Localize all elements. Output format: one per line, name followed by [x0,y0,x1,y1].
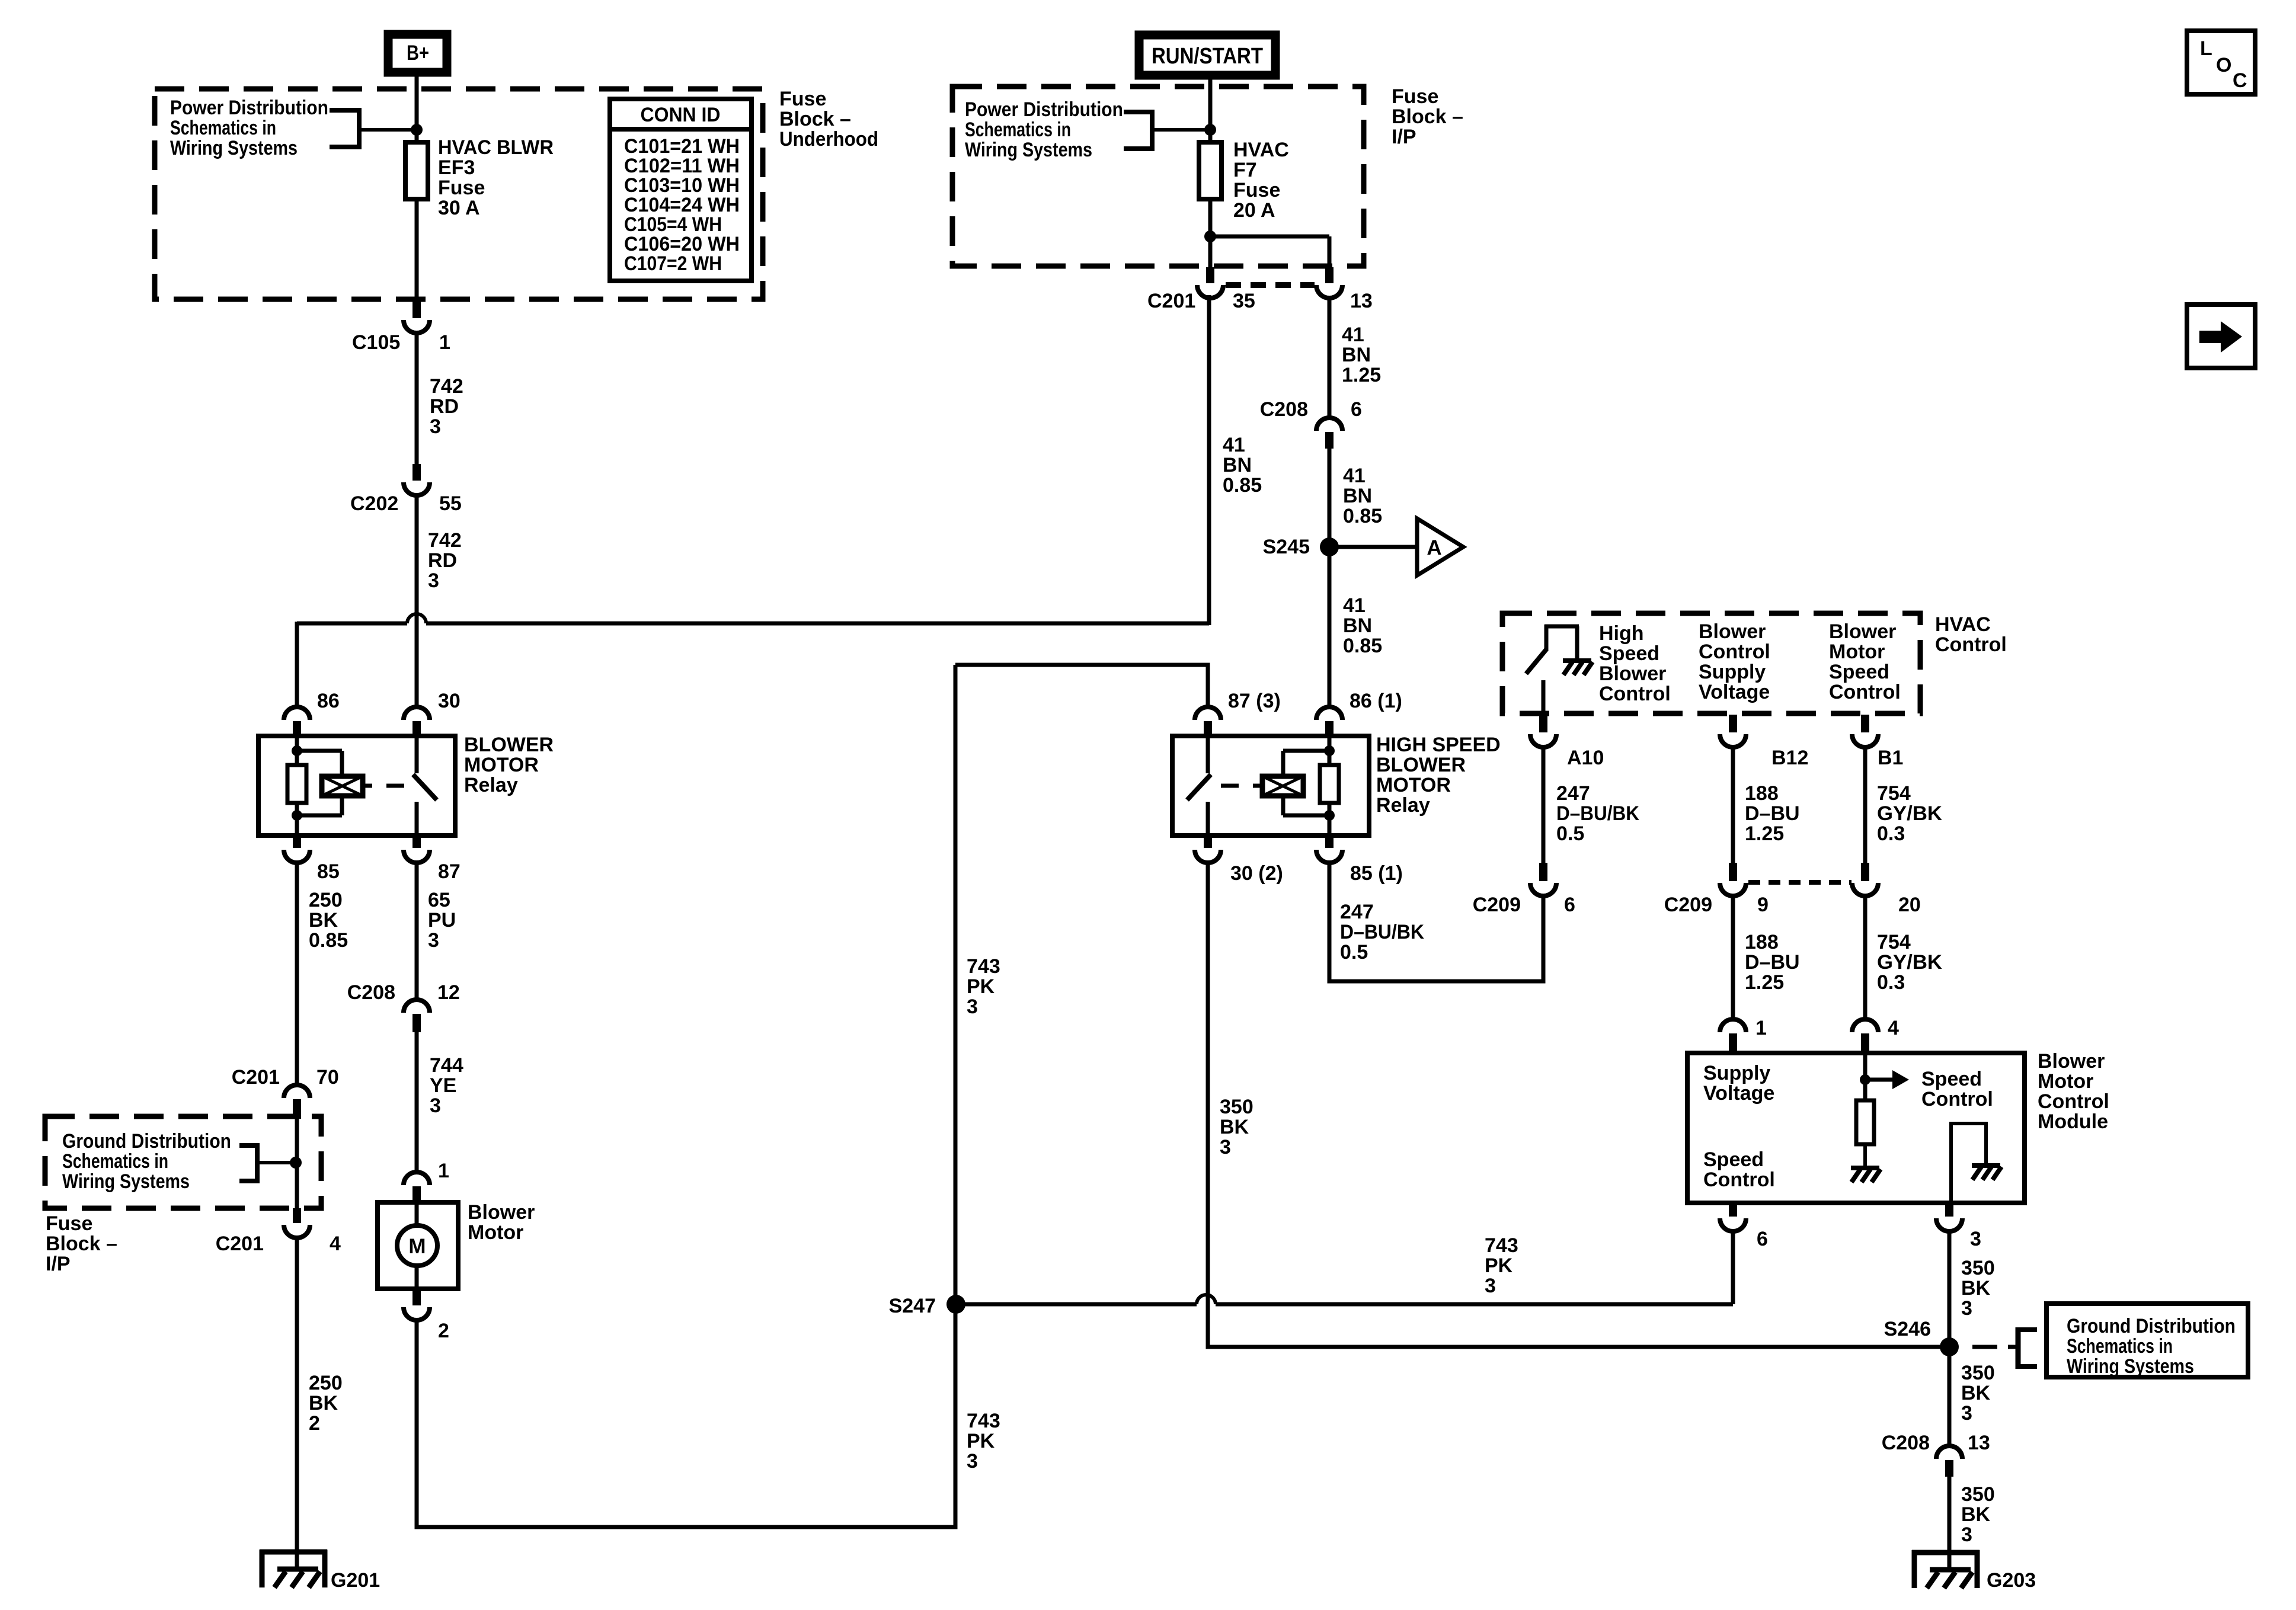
svg-text:RD: RD [428,549,457,572]
svg-text:6: 6 [1757,1228,1768,1250]
svg-text:GY/BK: GY/BK [1877,951,1942,974]
svg-text:Motor: Motor [1829,641,1885,663]
wire B+ to fuse EF3 [415,72,419,145]
svg-text:BK: BK [1220,1116,1249,1138]
label fuse block I/P bottom left [46,1212,117,1275]
svg-text:1: 1 [438,1160,449,1182]
module pin 6 [1720,1201,1746,1231]
wire S245 to arrow A [1329,545,1417,549]
svg-text:GY/BK: GY/BK [1877,802,1942,825]
ground G201 [260,1550,327,1587]
blower motor M [397,1202,437,1289]
svg-text:Schematics in: Schematics in [170,117,276,139]
svg-text:85: 85 [317,860,340,883]
wire RUN/START to fuse F7 [1208,75,1213,145]
svg-text:Ground Distribution: Ground Distribution [2067,1315,2236,1337]
svg-text:D–BU: D–BU [1745,802,1800,825]
HVAC pin B12 [1720,715,1746,747]
relay blower motor box [258,736,455,836]
label fuse EF3 [438,136,554,219]
bracket power distribution right [1124,110,1210,151]
svg-text:B1: B1 [1878,747,1903,769]
wire 754 GY/BK C209-20 to module pin 4 [1863,894,1868,1022]
svg-text:RUN/START: RUN/START [1152,44,1263,69]
label wire 350 BK 3 left [1220,1096,1253,1158]
svg-text:I/P: I/P [46,1253,71,1275]
wire 744 YE to blower motor [415,1031,419,1174]
svg-text:Relay: Relay [464,774,518,796]
label wire 188 D-BU 1.25 upper [1745,782,1800,845]
relay2 resistor [1320,765,1339,803]
label pin 86(1) [1350,690,1402,712]
label pin 30 [438,690,461,712]
svg-text:3: 3 [428,929,439,952]
connector C201 joint dashed [1226,282,1315,288]
fuse F7 [1199,142,1221,199]
svg-text:6: 6 [1351,398,1362,421]
module pin 4 [1852,1019,1878,1055]
svg-text:Block –: Block – [779,108,851,130]
svg-text:D–BU/BK: D–BU/BK [1340,921,1424,943]
relay pin 87 [404,833,430,863]
svg-text:EF3: EF3 [438,156,475,179]
label module pin 1 [1755,1017,1767,1039]
svg-text:0.3: 0.3 [1877,971,1905,994]
connector C209 pin 6 [1530,863,1556,896]
wire 754 GY/BK B1 to C209-20 [1863,746,1868,863]
connector C105 pin 1 [404,300,430,333]
label speed control internal [1921,1068,1993,1110]
svg-text:Wiring Systems: Wiring Systems [2067,1355,2194,1378]
wire 743 PK S247 up to 87(3) [954,665,958,1304]
svg-text:247: 247 [1556,782,1590,805]
svg-text:C208: C208 [347,981,395,1004]
svg-text:20 A: 20 A [1233,199,1275,222]
fuse block underhood dashed box [155,89,763,299]
note power distribution left [170,97,328,159]
label wire 41 BN 0.85 lower [1343,594,1382,657]
label B12 [1771,747,1808,769]
svg-text:12: 12 [437,981,460,1004]
relay high speed box [1172,736,1369,836]
label high speed relay [1376,734,1501,817]
svg-text:55: 55 [439,492,462,515]
svg-text:BLOWER: BLOWER [1376,754,1466,776]
label wire 247 D-BU/BK 0.5 left [1340,901,1424,964]
svg-text:743: 743 [1485,1234,1518,1257]
HVAC pin A10 [1530,715,1556,747]
svg-text:BN: BN [1343,614,1372,637]
svg-text:M: M [408,1235,426,1258]
svg-text:BK: BK [309,1392,338,1414]
svg-text:4: 4 [1888,1017,1899,1039]
label C105 [352,331,450,354]
svg-text:13: 13 [1350,290,1373,312]
note ground distribution left [62,1130,231,1193]
wire C201-13 to C208-6 [1328,297,1332,420]
S246 dashed link [1972,1345,1997,1349]
svg-text:Wiring Systems: Wiring Systems [170,137,298,159]
note power distribution right [965,98,1123,161]
power feed flag RUN/START [1139,35,1275,75]
svg-text:Blower: Blower [1699,620,1766,643]
module internal resistor [1856,1100,1874,1166]
svg-text:86: 86 [317,690,340,712]
svg-text:0.5: 0.5 [1556,822,1584,845]
svg-text:Module: Module [2038,1110,2108,1133]
svg-text:HIGH SPEED: HIGH SPEED [1376,734,1501,756]
svg-text:Motor: Motor [468,1221,523,1244]
relay coil link dashes [363,784,404,788]
junction dot fuse F7 output [1204,231,1216,242]
wire 87(3) feed [955,665,1208,709]
label pin 86 [317,690,340,712]
label wire 743 PK 3 right [1485,1234,1518,1297]
wire 350 BK 30(2) to S246 [1208,862,1949,1347]
svg-text:3: 3 [1485,1275,1496,1297]
relay pin 30 [404,707,430,738]
svg-text:Voltage: Voltage [1699,681,1770,703]
svg-text:41: 41 [1343,465,1366,487]
svg-text:C201: C201 [1147,290,1195,312]
connector C209 pin 9 [1720,863,1746,896]
svg-text:Wiring Systems: Wiring Systems [965,139,1092,161]
label C209 9 20 [1664,894,1921,916]
label wire 742 RD 3 upper [430,375,463,438]
label module pin 3 [1970,1228,1981,1250]
svg-text:PU: PU [428,909,456,932]
label high speed blower control [1599,622,1671,705]
label speed control bottom [1703,1148,1775,1191]
label wire 247 D-BU/BK 0.5 right [1556,782,1639,845]
svg-text:Control: Control [1599,683,1671,705]
svg-text:Ground Distribution: Ground Distribution [62,1130,231,1153]
svg-text:C105: C105 [352,331,400,354]
label wire 754 GY/BK 0.3 lower [1877,931,1942,994]
label blower control supply voltage [1699,620,1770,703]
connector C209 pin 20 [1852,863,1878,896]
svg-text:I/P: I/P [1392,126,1416,148]
svg-text:744: 744 [430,1054,463,1077]
connector C201 pin 70 [284,1085,310,1119]
fuse block I/P dashed box [952,87,1364,266]
connector C208 pin 6 [1316,418,1342,449]
module internal ground 2 [1972,1166,2001,1180]
label C209 6 [1473,894,1575,916]
relay2 pin 86(1) [1316,707,1342,738]
relay2 pin 85(1) [1316,833,1342,863]
HVAC pin B1 [1852,715,1878,747]
label pin 85 [317,860,340,883]
svg-text:D–BU/BK: D–BU/BK [1556,802,1639,825]
relay coil [322,776,363,796]
svg-text:0.85: 0.85 [309,929,348,952]
wire S245 to relay 86(1) [1328,547,1332,709]
svg-text:PK: PK [1485,1254,1513,1277]
relay2 pin 30(2) [1195,833,1221,863]
junction dot B+ feed [411,124,423,136]
svg-text:Fuse: Fuse [1233,179,1280,201]
svg-text:Power Distribution: Power Distribution [170,97,328,119]
svg-text:3: 3 [1970,1228,1981,1250]
svg-text:Underhood: Underhood [779,128,878,151]
label blower pin 2 [438,1320,449,1342]
svg-text:188: 188 [1745,931,1779,953]
label wire 41 BN 0.85 left drop [1223,434,1262,497]
svg-text:Fuse: Fuse [438,177,485,199]
label wire 350 BK 3 lower [1961,1483,1995,1546]
junction dot ground distribution left [290,1157,302,1169]
svg-text:RD: RD [430,395,459,418]
svg-text:Speed: Speed [1921,1068,1982,1090]
svg-text:G203: G203 [1987,1569,2036,1592]
wire 247 D-BU/BK 85(1) to A10 [1329,862,1543,981]
blower motor pin 1 [404,1172,430,1205]
svg-text:HVAC: HVAC [1233,139,1289,161]
svg-text:754: 754 [1877,782,1911,805]
label HVAC control [1935,613,2007,656]
label wire 742 RD 3 lower [428,529,462,592]
svg-text:C107=2 WH: C107=2 WH [624,252,722,275]
wire branch to C201-13 [1210,236,1329,267]
svg-text:Fuse: Fuse [1392,85,1438,108]
svg-text:350: 350 [1961,1483,1995,1506]
svg-text:Supply: Supply [1703,1062,1770,1084]
svg-text:743: 743 [967,1410,1000,1432]
svg-text:YE: YE [430,1074,456,1097]
module pin 1 [1720,1019,1746,1055]
label wire 754 GY/BK 0.3 upper [1877,782,1942,845]
svg-text:Control: Control [1921,1088,1993,1110]
svg-text:30: 30 [438,690,461,712]
connector C201 pin 35 [1197,267,1223,298]
blower motor pin 2 [404,1286,430,1320]
wire 350 BK module pin3 to C208-13 [1948,1230,1952,1448]
svg-text:Block –: Block – [46,1233,117,1255]
svg-text:6: 6 [1564,894,1575,916]
svg-text:Relay: Relay [1376,794,1430,817]
svg-text:0.85: 0.85 [1223,474,1262,497]
svg-text:Blower: Blower [1829,620,1896,643]
svg-text:BLOWER: BLOWER [464,734,554,756]
wire C209-6 to A10 [1542,746,1546,863]
svg-text:1.25: 1.25 [1745,822,1784,845]
svg-text:High: High [1599,622,1644,645]
label blower motor speed control [1829,620,1901,703]
relay coil circuit [292,736,342,836]
label C201 4 [216,1233,341,1255]
label module pin 4 [1888,1017,1899,1039]
svg-text:C209: C209 [1473,894,1521,916]
HVAC control dashed box [1502,613,1920,713]
wire 188 D-BU C209-9 to module pin 1 [1731,894,1735,1022]
off-page arrow A [1417,518,1463,575]
svg-text:Schematics in: Schematics in [965,119,1071,141]
splice S247 [946,1295,965,1314]
label wire 250 BK 0.85 [309,889,348,952]
svg-text:85 (1): 85 (1) [1350,862,1403,885]
svg-text:BN: BN [1223,454,1252,476]
svg-text:Voltage: Voltage [1703,1082,1774,1105]
label C202 [350,492,462,515]
splice S246 [1940,1337,1959,1356]
svg-text:S246: S246 [1884,1318,1931,1340]
label fuse block underhood [779,88,878,151]
svg-text:C202: C202 [350,492,398,515]
relay2 pin 87(3) [1195,707,1221,738]
svg-text:30 A: 30 A [438,197,480,219]
wire fuse EF3 to C105 [415,197,419,300]
wire hop over 742 RD [407,614,426,623]
label wire 744 YE 3 [430,1054,463,1117]
bracket power distribution left [330,108,417,149]
svg-text:3: 3 [1961,1297,1972,1320]
wire inside ground dist box [295,1116,299,1211]
svg-text:188: 188 [1745,782,1779,805]
svg-text:C208: C208 [1260,398,1308,421]
svg-text:4: 4 [330,1233,341,1255]
label module [2038,1050,2109,1133]
svg-text:CONN ID: CONN ID [641,104,721,126]
svg-text:0.85: 0.85 [1343,505,1382,527]
svg-text:3: 3 [430,415,441,438]
bracket ground distribution right [2008,1327,2037,1369]
svg-text:Blower: Blower [468,1201,535,1224]
svg-text:Speed: Speed [1703,1148,1764,1171]
svg-text:Blower: Blower [2038,1050,2105,1073]
svg-text:Schematics in: Schematics in [62,1150,168,1173]
svg-text:350: 350 [1220,1096,1253,1118]
svg-text:70: 70 [316,1066,339,1089]
wire hop over 350 BK [1197,1295,1216,1304]
svg-text:D–BU: D–BU [1745,951,1800,974]
svg-text:A10: A10 [1567,747,1604,769]
label wire 350 BK 3 upper [1961,1257,1995,1320]
connector C202 pin 55 [404,464,430,495]
module box [1687,1053,2025,1203]
label S247 [889,1295,936,1317]
label A10 [1567,747,1604,769]
blower motor box [378,1202,458,1289]
relay switch [413,736,437,836]
CONN ID table [610,99,752,281]
wire 188 D-BU B12 to C209-9 [1731,746,1735,863]
wire 250 BK to G201 [295,1237,299,1569]
svg-text:S247: S247 [889,1295,936,1317]
label pin 30(2) [1230,862,1283,885]
svg-text:Supply: Supply [1699,661,1766,683]
relay pin 86 [284,707,310,738]
connector C201 pin 13 [1316,267,1342,298]
svg-text:O: O [2216,54,2231,76]
svg-text:A: A [1427,536,1441,559]
svg-text:Block –: Block – [1392,105,1463,128]
svg-text:Wiring Systems: Wiring Systems [62,1170,190,1193]
svg-text:1: 1 [439,331,450,354]
svg-text:F7: F7 [1233,159,1257,181]
svg-text:247: 247 [1340,901,1374,923]
svg-text:742: 742 [430,375,463,398]
svg-text:41: 41 [1223,434,1245,456]
svg-text:B12: B12 [1771,747,1808,769]
svg-text:BK: BK [1961,1277,1991,1299]
label wire 65 PU 3 [428,889,456,952]
wire RUN/START feed horizontal to relay coil [297,295,1209,709]
svg-text:C208: C208 [1882,1432,1930,1454]
wire fuse F7 to C201-35 [1208,197,1213,267]
svg-text:Control: Control [1699,641,1770,663]
svg-text:C: C [2233,69,2247,92]
svg-text:87 (3): 87 (3) [1228,690,1281,712]
label C208 6 [1260,398,1362,421]
svg-text:30 (2): 30 (2) [1230,862,1283,885]
connector C209 joint dotted [1748,880,1851,885]
label C208 12 [347,981,460,1004]
label B1 [1878,747,1903,769]
svg-text:Control: Control [1829,681,1901,703]
svg-text:1.25: 1.25 [1745,971,1784,994]
svg-text:13: 13 [1968,1432,1990,1454]
label G203 [1987,1569,2036,1592]
page continuation arrow box [2187,305,2255,368]
svg-text:Power Distribution: Power Distribution [965,98,1123,121]
label pin 85(1) [1350,862,1403,885]
ground G203 [1912,1550,1980,1588]
svg-text:G201: G201 [331,1569,380,1592]
svg-text:3: 3 [430,1094,441,1117]
svg-text:S245: S245 [1263,536,1310,558]
connector C208 pin 13 [1936,1446,1962,1477]
module internal arrow [1865,1070,1909,1089]
label wire 41 BN 1.25 [1342,324,1381,386]
svg-text:B+: B+ [407,41,429,65]
wire 743 PK blower to S247 [417,1304,955,1527]
label blower motor [468,1201,535,1244]
relay resistor [287,765,306,803]
svg-text:3: 3 [428,569,439,592]
label wire 743 PK 3 top [967,955,1000,1018]
relay2 coil circuit [1283,736,1335,836]
power feed flag B+ [388,34,447,72]
svg-text:20: 20 [1898,894,1921,916]
relay pin 85 [284,833,310,863]
svg-text:250: 250 [309,1372,343,1394]
svg-text:0.3: 0.3 [1877,822,1905,845]
junction dot RUN/START feed [1204,124,1216,136]
label pin 87 [438,860,461,883]
label wire 743 PK 3 bottom [967,1410,1000,1473]
svg-text:BN: BN [1342,344,1371,366]
svg-text:3: 3 [967,1450,978,1473]
svg-text:HVAC BLWR: HVAC BLWR [438,136,554,159]
svg-text:743: 743 [967,955,1000,978]
svg-text:C201: C201 [232,1066,280,1089]
fuse EF3 [405,142,428,199]
svg-text:Control: Control [2038,1090,2109,1113]
svg-text:1.25: 1.25 [1342,364,1381,386]
svg-text:Fuse: Fuse [46,1212,92,1235]
svg-text:350: 350 [1961,1257,1995,1279]
svg-text:Blower: Blower [1599,662,1666,685]
LOC legend box top right [2187,31,2255,94]
HVAC switch high speed blower [1526,625,1593,713]
svg-text:PK: PK [967,975,995,998]
wire 742 RD C105 to C202 [415,331,419,464]
svg-text:Schematics in: Schematics in [2067,1335,2173,1358]
svg-text:3: 3 [967,996,978,1018]
svg-text:754: 754 [1877,931,1911,953]
label wire 250 BK 2 [309,1372,343,1435]
